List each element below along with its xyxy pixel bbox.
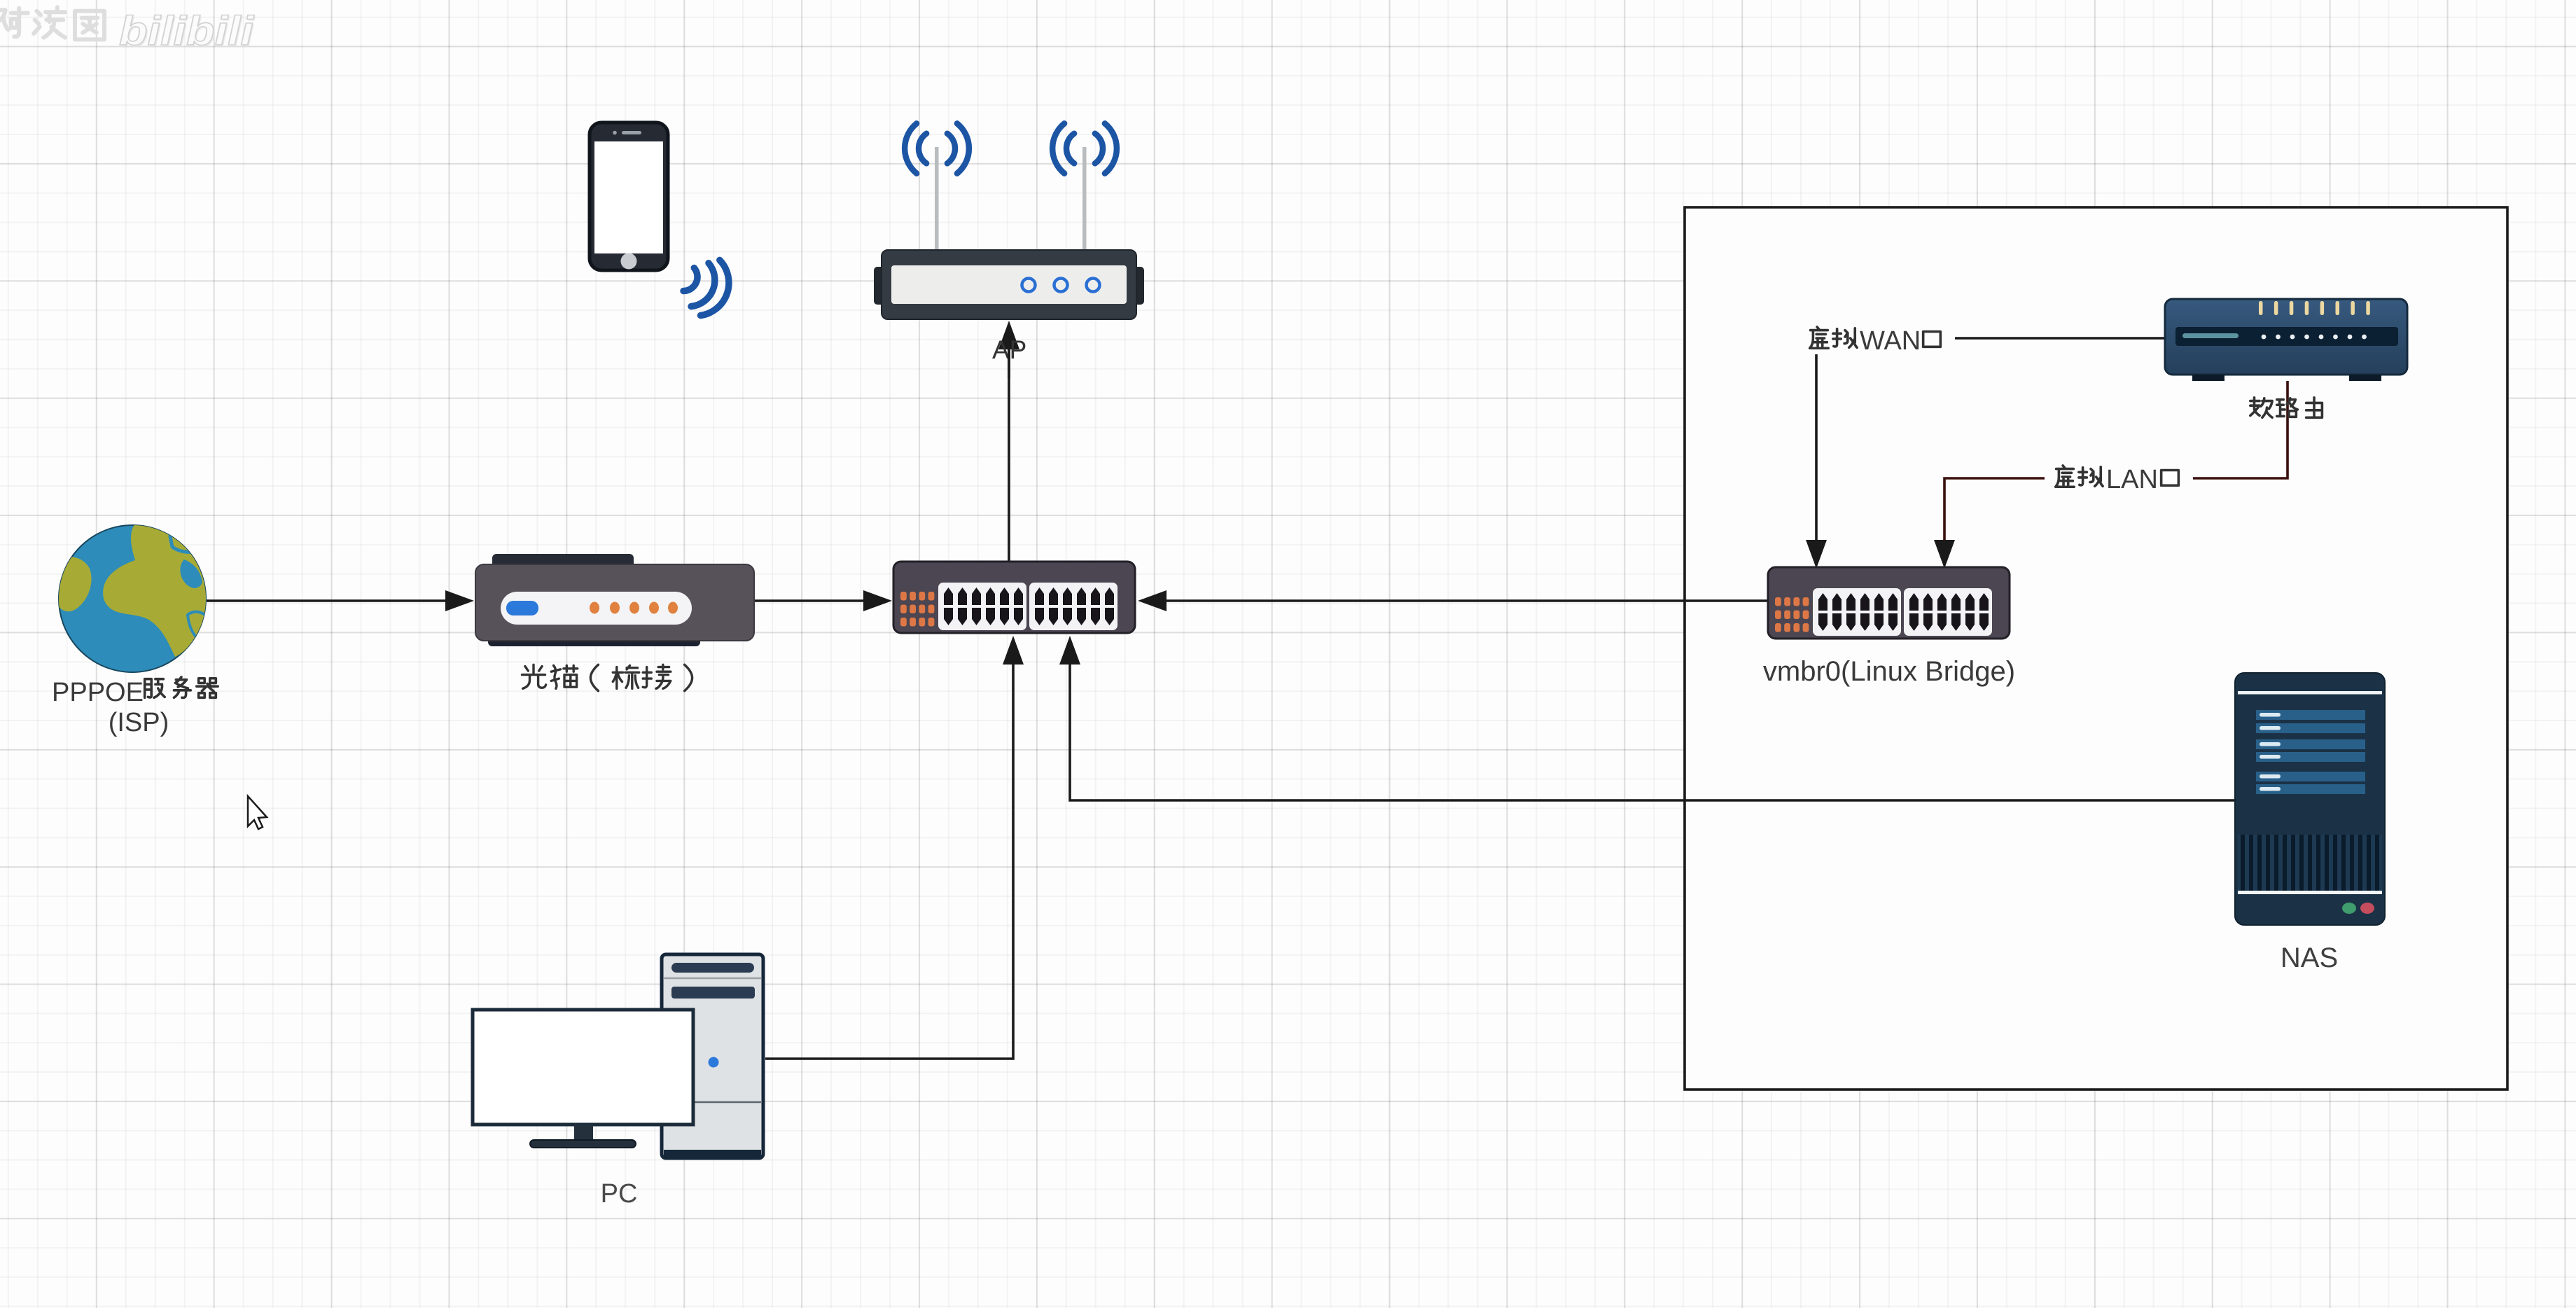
svg-text:bilibili: bilibili bbox=[119, 8, 255, 54]
svg-text:PPPOE: PPPOE bbox=[52, 678, 144, 707]
svg-text:vmbr0(Linux Bridge): vmbr0(Linux Bridge) bbox=[1763, 656, 2015, 687]
svg-text:LAN: LAN bbox=[2106, 465, 2158, 494]
svg-text:(ISP): (ISP) bbox=[109, 708, 169, 737]
svg-text:PC: PC bbox=[601, 1179, 638, 1209]
svg-text:NAS: NAS bbox=[2281, 942, 2338, 973]
svg-text:WAN: WAN bbox=[1860, 326, 1921, 356]
